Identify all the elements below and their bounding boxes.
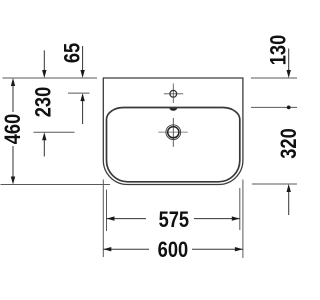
overflow notch — [169, 108, 177, 111]
svg-text:600: 600 — [158, 239, 188, 263]
dimension 460 bottom arrowhead — [11, 177, 15, 185]
extension line faucet level — [68, 92, 90, 94]
svg-text:575: 575 — [159, 208, 189, 232]
dimension 460 line — [12, 86, 14, 177]
dimension 130 arrow — [288, 49, 290, 71]
extension line bottom right — [252, 183, 297, 185]
svg-text:230: 230 — [32, 87, 56, 117]
extension line outer-right vertical — [242, 180, 244, 259]
extension line top left — [3, 77, 98, 79]
extension line outer-left vertical — [102, 180, 104, 258]
dimension 65 bottom arrow — [80, 93, 84, 101]
drain outer circle — [166, 125, 181, 140]
drain inner circle — [168, 127, 179, 138]
dimension 575 line left — [107, 218, 147, 220]
svg-text:130: 130 — [267, 35, 291, 65]
extension line drain level — [34, 131, 75, 133]
extension line top right — [251, 77, 297, 79]
basin inner outline — [107, 108, 240, 182]
dimension 575 line right — [194, 218, 240, 220]
faucet hole — [170, 90, 177, 97]
extension line bottom left — [1, 184, 111, 186]
washbasin outer outline — [103, 78, 243, 185]
svg-text:320: 320 — [278, 128, 300, 158]
shared dimension dot — [287, 106, 291, 110]
dimension 460 top arrowhead — [11, 78, 15, 86]
dimension 600 line left — [103, 248, 149, 250]
faucet hole crosshair — [164, 84, 183, 104]
dimension 600 line right — [192, 248, 243, 250]
svg-text:460: 460 — [1, 114, 25, 144]
dimension 65 top arrow — [82, 46, 84, 70]
extension line basin-left vertical — [106, 190, 108, 232]
extension line basin-top right — [251, 106, 297, 108]
dimension 230 bottom arrow — [42, 132, 46, 140]
extension line basin-right vertical — [239, 188, 241, 230]
dimension 320 bottom arrow — [287, 184, 291, 192]
svg-text:65: 65 — [61, 43, 85, 63]
dimension 230 top arrow — [43, 50, 45, 70]
drain crosshair — [158, 131, 187, 133]
